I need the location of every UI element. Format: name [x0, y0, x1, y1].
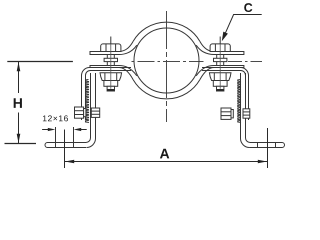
- right clamp bolt top hex nut: [210, 44, 230, 52]
- dimension A: left extension line through left slot center: [64, 130, 66, 169]
- right leg lower strap bending into right foot: [246, 73, 285, 148]
- left clamp bolt top hex nut: [101, 44, 121, 52]
- right clamp bolt shank: [216, 55, 218, 66]
- left clamp bolt axis centerline: [110, 44, 112, 89]
- left clamp bolt lower washer: [104, 81, 118, 87]
- left leg lower strap bending into left foot: [45, 73, 91, 148]
- right leg adjustment bolt: hex nut on inner side: [221, 108, 231, 119]
- horizontal centerline of pipe: [132, 61, 204, 63]
- clamp strap outer arc bottom: [133, 80, 200, 99]
- right upper ear plate of clamp: [214, 52, 244, 55]
- left clamp bolt bottom hex nut: [100, 73, 122, 81]
- right clamp bolt axis centerline: [219, 44, 221, 89]
- dimension H: bottom extension line (base level): [5, 143, 37, 145]
- dimension A: horizontal dimension line with arrows: [65, 161, 268, 163]
- left leg adjustment bolt: hex nut on outer side: [75, 107, 84, 118]
- left leg bolt washer: [84, 109, 86, 117]
- right leg bolt washer: [231, 110, 233, 118]
- bracket flange left run with corner into left upper leg strap: [82, 68, 132, 121]
- label C: [244, 3, 252, 12]
- bracket flange right run with corner into right upper leg strap: [202, 68, 249, 121]
- dimension H: top extension line (pipe centerline level): [7, 61, 73, 63]
- left clamp bolt protruding thread tip: [107, 86, 114, 91]
- vertical centerline of pipe: [166, 11, 168, 122]
- right leg bolt head on outer side: [243, 109, 250, 118]
- right clamp bolt spacer washer between ears: [214, 58, 227, 61]
- left leg serrated strip (ratchet teeth): [86, 80, 89, 123]
- leader line C pointing to clamp bolt nut: [223, 15, 262, 38]
- right clamp bolt bottom hex nut: [209, 73, 231, 81]
- left upper ear plate of clamp: [90, 52, 119, 55]
- right clamp bolt protruding thread tip: [217, 86, 224, 91]
- dimension 12x16 label for foot slot: [43, 115, 68, 121]
- dimension A label: [160, 149, 169, 159]
- dimension A: right extension line through right slot center: [267, 128, 269, 168]
- left clamp bolt shank: [106, 55, 108, 66]
- clamp strap outer arc top: [133, 22, 200, 41]
- left clamp bolt axis tick: [110, 37, 112, 44]
- left leg bolt head on inner side: [91, 108, 99, 117]
- left lower ear plate of clamp: [90, 66, 119, 68]
- left foot slot 12x16 edge lines: [55, 127, 57, 148]
- right lower ear plate of clamp: [214, 66, 244, 68]
- right clamp bolt axis tick: [219, 37, 221, 44]
- left clamp bolt spacer washer between ears: [104, 58, 117, 61]
- dimension 12x16 arrows: [42, 129, 52, 131]
- dimension H: vertical dimension line with arrows: [18, 62, 20, 94]
- right clamp bolt lower washer: [213, 81, 227, 87]
- dimension H label: [14, 98, 22, 108]
- right leg serrated strip (ratchet teeth): [238, 80, 241, 123]
- pipe cross-section circle: [134, 28, 199, 93]
- right foot slot edge lines: [257, 143, 259, 148]
